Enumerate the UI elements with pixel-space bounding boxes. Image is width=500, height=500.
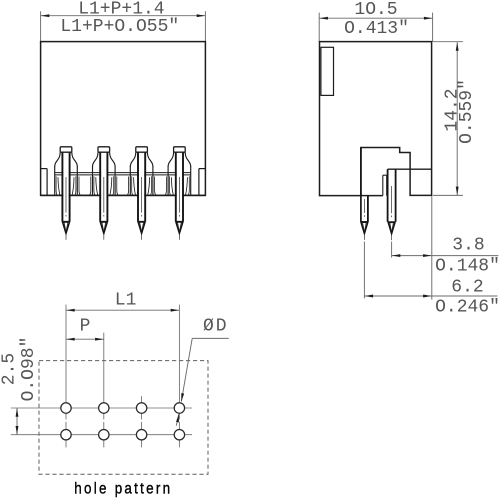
svg-text:2.5: 2.5 [0, 353, 20, 385]
svg-text:P: P [80, 316, 91, 336]
svg-text:O.246": O.246" [435, 297, 500, 317]
svg-text:O.O98": O.O98" [19, 337, 39, 402]
svg-text:6.2: 6.2 [451, 277, 483, 297]
svg-text:hole pattern: hole pattern [74, 480, 172, 497]
svg-text:O.148": O.148" [435, 257, 500, 277]
svg-text:ØD: ØD [203, 317, 229, 337]
svg-text:O.559": O.559" [457, 79, 477, 144]
svg-text:3.8: 3.8 [452, 236, 484, 256]
svg-text:O.413": O.413" [344, 19, 409, 39]
svg-text:L1: L1 [115, 291, 137, 311]
svg-text:L1+P+O.O55": L1+P+O.O55" [60, 17, 179, 37]
svg-text:1O.5: 1O.5 [354, 0, 397, 20]
